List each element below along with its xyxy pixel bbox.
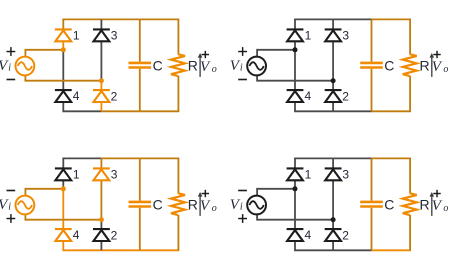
svg-text:i: i xyxy=(240,202,243,213)
svg-text:i: i xyxy=(8,63,11,74)
svg-text:R: R xyxy=(420,57,430,73)
svg-text:1: 1 xyxy=(305,168,312,182)
svg-text:i: i xyxy=(8,202,11,213)
svg-text:2: 2 xyxy=(342,89,349,103)
svg-text:o: o xyxy=(212,203,217,214)
svg-text:3: 3 xyxy=(111,168,118,182)
svg-text:1: 1 xyxy=(73,168,80,182)
svg-text:2: 2 xyxy=(111,89,118,103)
svg-text:4: 4 xyxy=(305,89,312,103)
svg-text:C: C xyxy=(384,58,394,74)
svg-text:C: C xyxy=(384,197,394,213)
svg-text:1: 1 xyxy=(73,29,80,43)
svg-text:R: R xyxy=(188,196,198,212)
svg-text:4: 4 xyxy=(73,228,80,242)
svg-text:C: C xyxy=(153,58,163,74)
svg-text:3: 3 xyxy=(342,29,349,43)
svg-text:4: 4 xyxy=(305,228,312,242)
svg-text:3: 3 xyxy=(111,29,118,43)
svg-text:2: 2 xyxy=(342,228,349,242)
svg-text:3: 3 xyxy=(342,168,349,182)
svg-text:o: o xyxy=(212,64,217,75)
svg-text:R: R xyxy=(188,57,198,73)
svg-text:C: C xyxy=(153,197,163,213)
svg-text:4: 4 xyxy=(73,89,80,103)
svg-text:i: i xyxy=(240,63,243,74)
svg-text:2: 2 xyxy=(111,228,118,242)
svg-text:o: o xyxy=(443,64,448,75)
svg-text:o: o xyxy=(443,203,448,214)
svg-text:1: 1 xyxy=(305,29,312,43)
svg-text:R: R xyxy=(420,196,430,212)
